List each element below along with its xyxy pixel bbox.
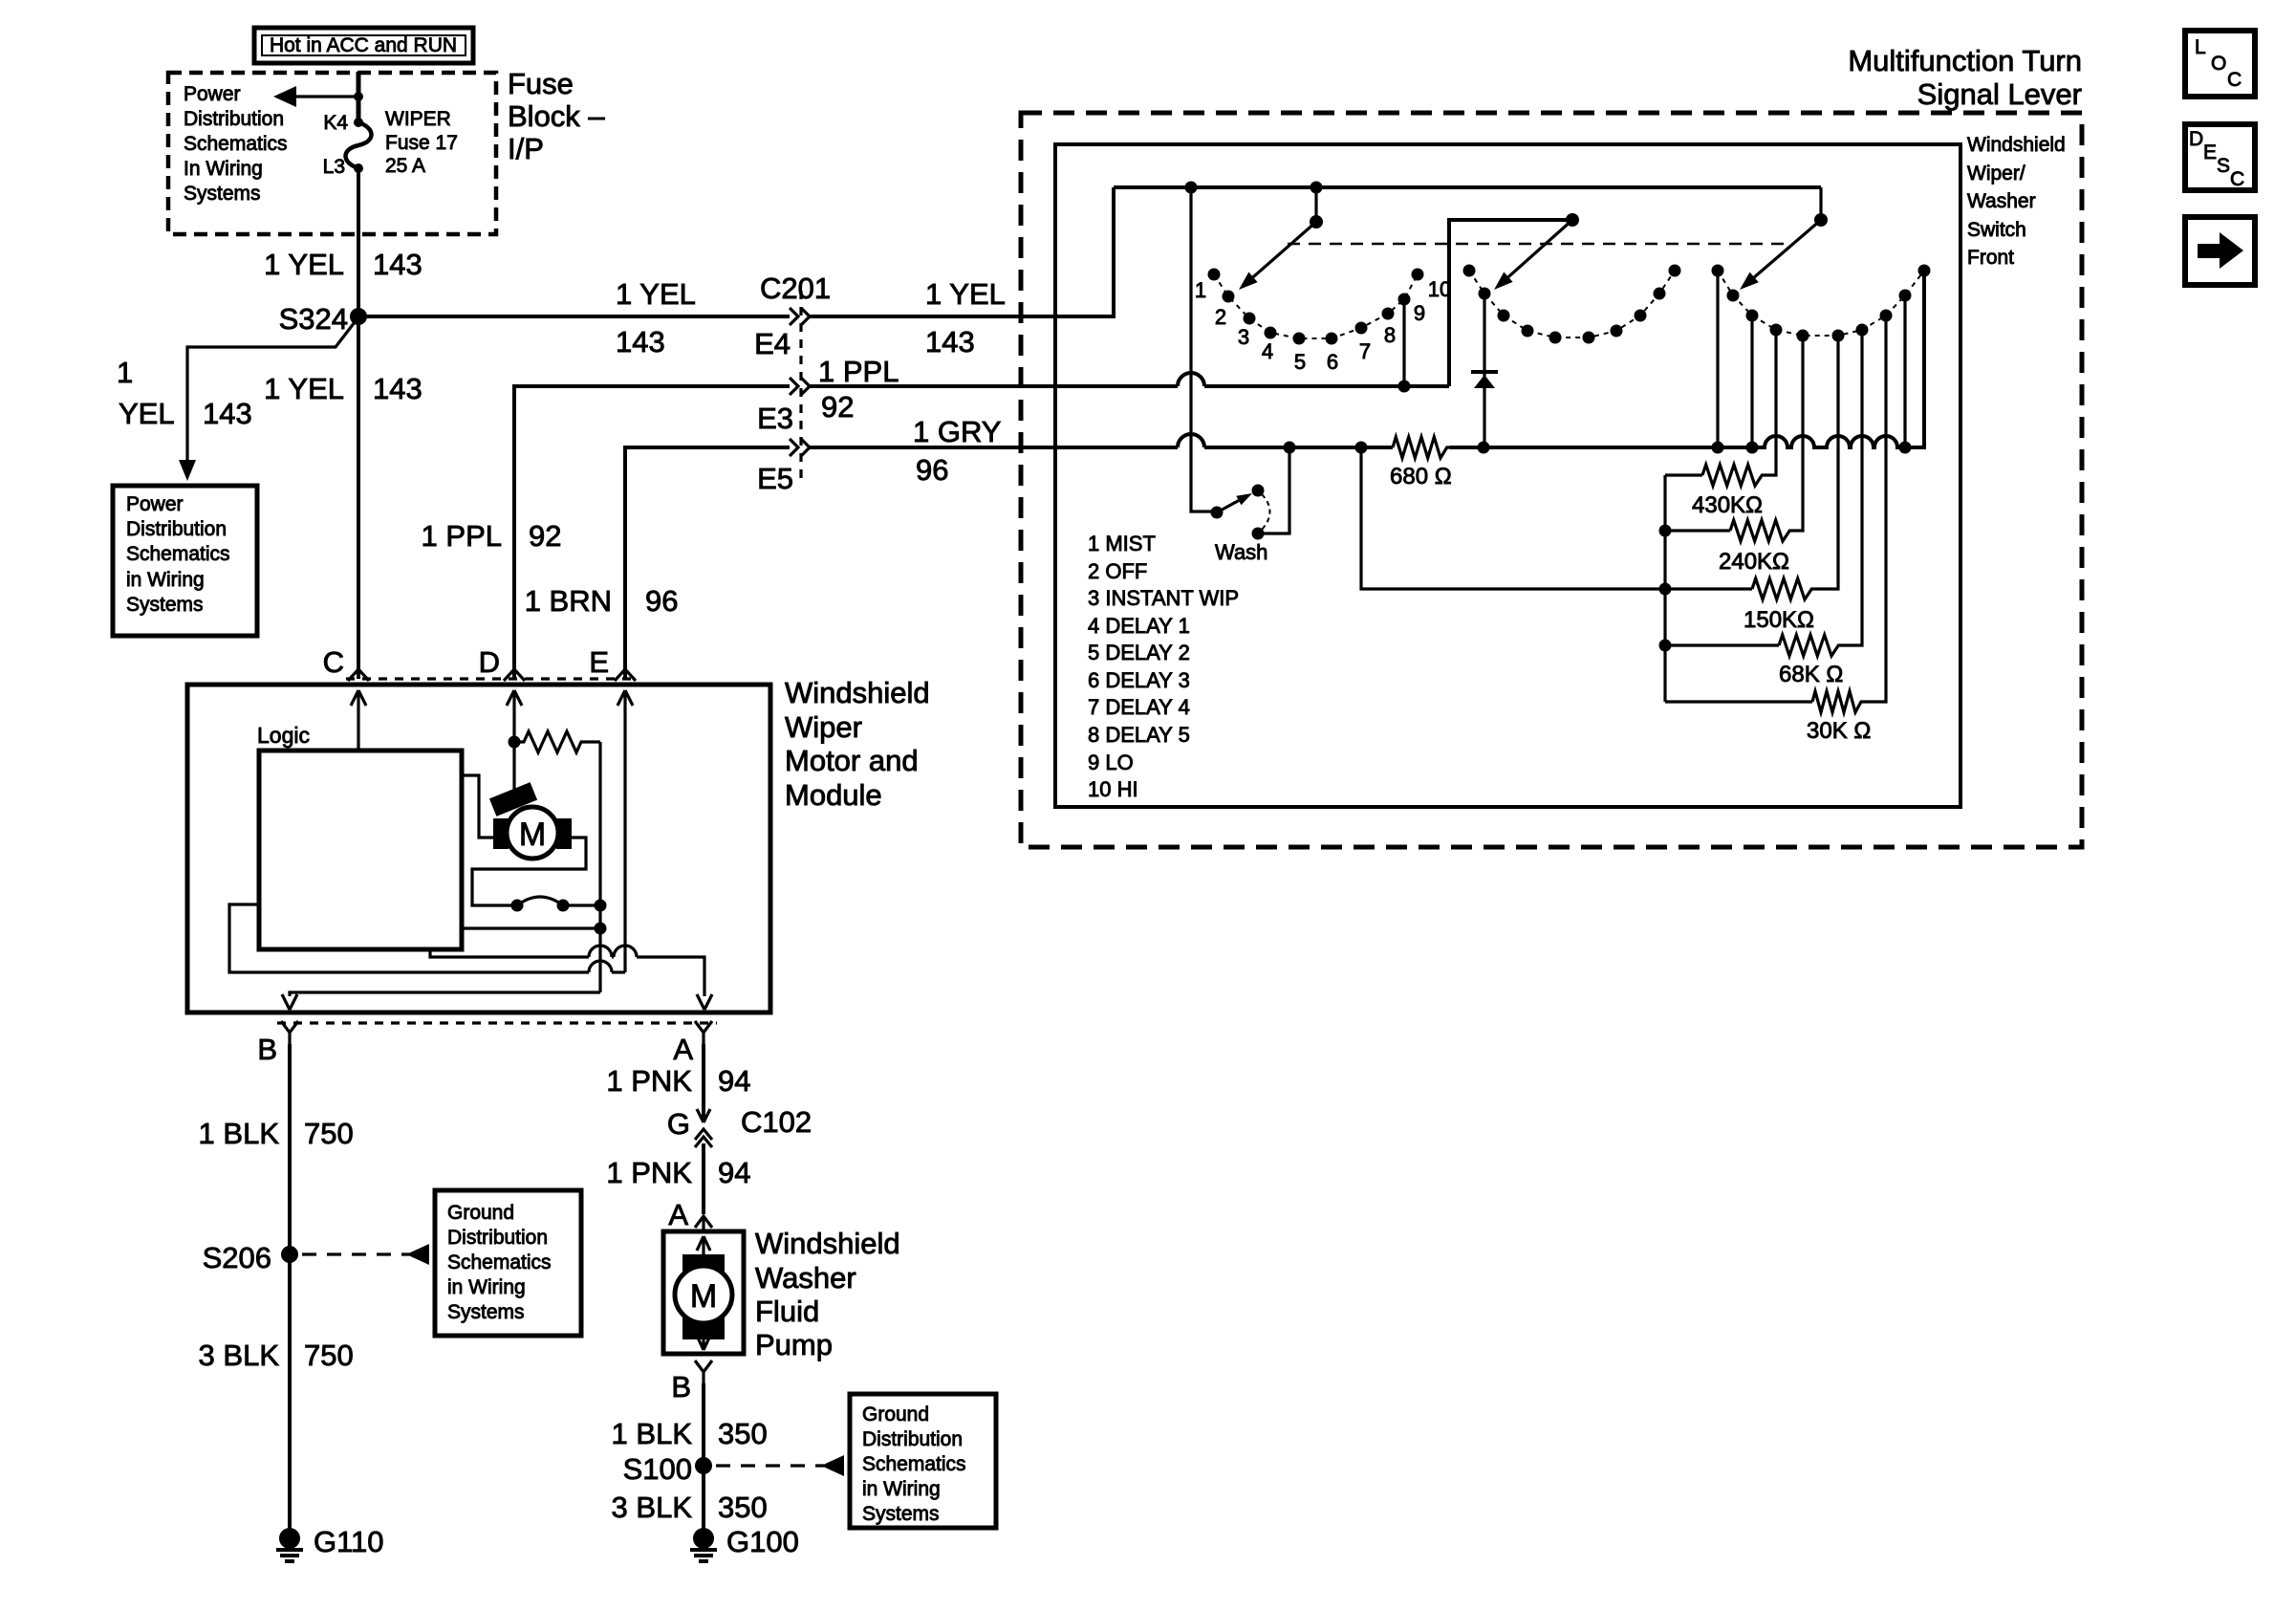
svg-text:Module: Module [785,778,882,812]
svg-text:C102: C102 [741,1105,812,1139]
wiper 1 arm arrow [1239,222,1316,290]
wire: E line to logic left side with crossover [229,904,625,972]
module bottom connector dashed line [277,1021,717,1024]
wire: logic to motor left brush [462,775,493,838]
svg-text:WIPER: WIPER [385,108,451,130]
svg-text:350: 350 [718,1417,768,1450]
svg-text:C: C [2227,69,2242,91]
svg-text:92: 92 [821,390,854,424]
svg-text:1 PPL: 1 PPL [818,355,899,388]
contact position numbers 1-10 (arc 1) [1195,277,1451,374]
svg-text:1 BLK: 1 BLK [612,1417,693,1450]
wire: 1 PNK 94 from C102 to pump [606,1143,750,1214]
svg-text:25 A: 25 A [385,155,425,177]
svg-text:Ground: Ground [447,1202,514,1224]
svg-text:94: 94 [718,1156,750,1189]
wire: top supply bus [1114,185,1821,189]
wire: 3 BLK 350 from S100 to G100 [612,1466,768,1530]
wire: 1 YEL 143 from C201 to switch [810,187,1114,359]
svg-text:O: O [2211,53,2226,75]
rotary contact arc 1 (wiper) [1208,269,1424,345]
svg-text:3 INSTANT WIP: 3 INSTANT WIP [1088,586,1239,610]
label: Hot in ACC and RUN [254,28,473,63]
svg-text:Distribution: Distribution [862,1428,963,1450]
connector C201 dashed line [799,291,802,486]
svg-text:Schematics: Schematics [447,1252,552,1274]
node: contact 3 tap on GRY [1746,321,1759,454]
node: contact 9 tap on GRY [1899,301,1912,454]
wiper 3 pivot from bus [1814,187,1828,227]
svg-text:143: 143 [373,248,422,281]
reference box: Ground Distribution Schematics in Wiring Systems (S206) [435,1190,581,1336]
svg-text:30K Ω: 30K Ω [1807,718,1871,744]
svg-text:5 DELAY 2: 5 DELAY 2 [1088,641,1190,664]
svg-text:Fluid: Fluid [755,1295,819,1328]
svg-text:94: 94 [718,1064,750,1098]
wire: 1 GRY 96 from E5 into switch [810,415,1289,487]
terminal E5 chevrons [757,439,810,495]
svg-text:10 HI: 10 HI [1088,777,1138,801]
svg-text:Distribution: Distribution [447,1227,548,1249]
svg-text:L: L [2195,36,2206,58]
svg-text:143: 143 [616,325,665,359]
svg-text:Fuse: Fuse [508,67,574,100]
svg-text:Schematics: Schematics [126,543,230,565]
svg-text:1 GRY: 1 GRY [913,415,1001,448]
svg-text:E: E [2203,142,2217,163]
terminal D chevron [479,645,525,681]
svg-text:Distribution: Distribution [126,518,227,540]
wiper 3 arm arrow [1740,220,1821,290]
svg-text:680 Ω: 680 Ω [1390,464,1452,490]
svg-text:in Wiring: in Wiring [447,1276,526,1298]
pump box: Windshield Washer Fluid Pump [663,1231,744,1354]
svg-text:8 DELAY 5: 8 DELAY 5 [1088,723,1190,747]
svg-text:Hot in ACC and RUN: Hot in ACC and RUN [270,34,457,56]
wire: 1 BLK 350 from pump B to S100 [612,1383,768,1466]
svg-text:Front: Front [1967,247,2014,269]
svg-text:Signal Lever: Signal Lever [1917,77,2082,111]
resistor 150K ohm [1744,341,1838,633]
svg-text:Schematics: Schematics [184,133,288,155]
node: contact 1 tap on GRY [1712,276,1724,454]
legend: switch positions [1088,532,1239,801]
wash switch [1191,187,1289,564]
svg-text:1 PNK: 1 PNK [606,1064,692,1098]
rotary contact arc 3 (delay resistors) [1712,265,1931,342]
wire: logic to park rail [462,926,600,929]
svg-text:143: 143 [373,372,422,405]
svg-text:1 BLK: 1 BLK [199,1117,280,1150]
svg-text:1 YEL: 1 YEL [264,248,344,281]
wire: 1 PPL 92 from module D up to E3 [422,386,790,679]
node: park rail junction 2 [595,923,607,935]
svg-text:Washer: Washer [755,1261,856,1295]
reference link: S206 to ground distribution box [302,1244,429,1265]
svg-text:2 OFF: 2 OFF [1088,559,1147,583]
svg-text:Block –: Block – [508,99,605,133]
wire: 1 PNK 94 from A to C102 [606,1044,750,1117]
terminal E3 chevrons [757,378,810,435]
svg-text:1: 1 [1195,278,1206,302]
svg-text:YEL: YEL [119,397,175,430]
svg-text:96: 96 [916,453,948,487]
module box: Windshield Wiper Motor and Module [187,685,770,1012]
svg-text:M: M [519,816,546,853]
node: bus junction wiper1 [1310,182,1323,194]
node: D-resistor junction [509,736,521,749]
wire: branch from S324 down-left to arrow [179,322,355,481]
wire: 1 PPL 92 from E3 into switch [810,355,1449,424]
svg-text:B: B [257,1033,277,1066]
reference box: Power Distribution Schematics in Wiring Systems [113,486,257,636]
svg-text:E4: E4 [754,327,791,360]
wire: ladder feed from GRY to bus [1361,447,1752,589]
svg-text:Power: Power [184,83,241,105]
svg-text:Schematics: Schematics [862,1453,966,1475]
svg-text:240KΩ: 240KΩ [1719,549,1789,575]
svg-text:Windshield: Windshield [1967,134,2066,156]
svg-text:92: 92 [529,519,561,553]
svg-text:6: 6 [1327,350,1338,374]
reference tab box LOC [2185,31,2255,97]
svg-text:S206: S206 [203,1241,271,1274]
svg-text:in Wiring: in Wiring [862,1478,941,1500]
svg-text:9: 9 [1414,301,1425,325]
svg-text:Systems: Systems [447,1301,525,1323]
label: Windshield Wiper/ Washer Switch Front [1967,134,2066,269]
terminal B chevron [257,1021,298,1066]
node: bus junction wash [1185,182,1198,194]
svg-text:Wiper: Wiper [785,710,862,744]
switch outer dashed box: Multifunction Turn Signal Lever [1021,113,2082,847]
wire: washer contact 2 to diode [1483,299,1485,447]
svg-text:Systems: Systems [184,183,261,205]
svg-text:350: 350 [718,1491,768,1524]
svg-text:G110: G110 [314,1525,384,1558]
wire: 1 BLK 750 from B to S206 [199,1044,354,1254]
svg-text:S: S [2217,155,2230,177]
label: Multifunction Turn Signal Lever [1848,44,2082,111]
svg-text:Washer: Washer [1967,190,2036,212]
svg-text:in Wiring: in Wiring [126,569,205,591]
wire: C input arrow to Logic [351,690,366,751]
wire: feed from Hot into fuse block [357,72,361,122]
svg-text:1 PNK: 1 PNK [606,1156,692,1189]
svg-text:Motor and: Motor and [785,744,919,777]
wire: arrow to Power Distribution Schematics [273,86,358,107]
wire: GRY bus across arc 3 taps with crossovers [1450,276,1924,447]
svg-text:1 PPL: 1 PPL [422,519,502,553]
svg-text:C: C [2230,168,2244,190]
svg-text:3 BLK: 3 BLK [199,1339,280,1372]
wire: 1 BRN 96 from module E up to E5 [525,447,790,679]
ground G110 [276,1525,384,1561]
svg-text:C: C [323,645,344,679]
svg-text:143: 143 [203,397,252,430]
wire: logic bottom to A output with crossovers [430,946,712,1010]
svg-text:E5: E5 [757,462,793,495]
reference box: Ground Distribution Schematics in Wiring Systems (S100) [850,1394,996,1528]
svg-text:4: 4 [1262,339,1273,363]
resistor 240K ohm [1665,341,1803,575]
svg-text:Windshield: Windshield [755,1227,900,1260]
reference tab box DESC [2185,124,2255,190]
node: diode junction on GRY [1478,442,1490,454]
svg-text:K4: K4 [323,112,348,134]
terminal A chevron [673,1021,712,1066]
terminal C chevron [323,645,369,681]
svg-text:A: A [668,1198,688,1231]
pin L3 [323,156,363,178]
svg-text:9 LO: 9 LO [1088,751,1134,774]
svg-text:Systems: Systems [862,1503,940,1525]
terminal E chevron [589,645,636,681]
svg-text:Distribution: Distribution [184,108,284,130]
svg-text:430KΩ: 430KΩ [1692,492,1763,518]
label: Fuse Block - I/P [508,67,605,165]
resistor 68K ohm [1665,336,1862,687]
label: Windshield Washer Fluid Pump [755,1227,900,1361]
wiper 2 arm arrow [1494,220,1572,290]
svg-text:B: B [671,1370,691,1404]
switch inner box [1055,144,1960,807]
label: Windshield Wiper Motor and Module [785,676,930,812]
reference tab box next-arrow [2185,217,2255,285]
reference link: S100 to ground distribution box [716,1455,844,1476]
node S206 [203,1241,298,1274]
svg-text:E3: E3 [757,402,793,435]
logic block box [259,751,462,949]
wire: 1 YEL 143 fuse to S324 [264,168,422,316]
wire: 1 YEL 143 from S324 down to module C [264,316,422,679]
svg-text:Systems: Systems [126,594,204,616]
resistor 30K ohm [1665,321,1886,744]
svg-text:5: 5 [1294,350,1306,374]
connector C102 pin G [667,1105,812,1147]
svg-text:G: G [667,1107,690,1141]
svg-text:Pump: Pump [755,1328,833,1361]
wire: D input arrow to motor [507,690,522,796]
svg-text:1 YEL: 1 YEL [616,277,696,311]
svg-text:E: E [589,645,609,679]
pin K4 [323,112,363,134]
node S100 [623,1452,712,1486]
svg-text:150KΩ: 150KΩ [1744,607,1814,633]
svg-text:7: 7 [1359,339,1371,363]
svg-text:Logic: Logic [257,723,310,748]
svg-text:143: 143 [925,325,975,359]
wire: motor right brush to park contact [472,838,586,905]
fuse block dashed box [168,73,496,234]
svg-text:L3: L3 [323,156,345,178]
label Logic [257,723,310,748]
wire: contact 9 to PPL line [1398,305,1411,393]
connector C201 label [760,272,831,305]
svg-text:D: D [479,645,500,679]
svg-text:1: 1 [117,356,133,389]
svg-text:7 DELAY 4: 7 DELAY 4 [1088,695,1190,719]
svg-text:A: A [673,1033,693,1066]
terminal B of pump [671,1361,712,1404]
wire: 3 BLK 750 from S206 to G110 [199,1254,354,1530]
svg-text:S100: S100 [623,1452,692,1486]
svg-text:Power: Power [126,493,184,515]
svg-text:96: 96 [645,584,678,618]
svg-text:M: M [690,1278,717,1315]
svg-text:1 YEL: 1 YEL [264,372,344,405]
svg-text:1 MIST: 1 MIST [1088,532,1156,555]
node: wash to GRY junction [1284,442,1296,454]
wiper 2 pivot and feed from PPL [1449,213,1579,386]
svg-text:In Wiring: In Wiring [184,158,263,180]
svg-text:3: 3 [1238,325,1249,349]
mechanical link dashed line [1288,243,1786,246]
motor M2 washer pump [675,1236,732,1350]
svg-text:Wiper/: Wiper/ [1967,163,2025,185]
connector row C D E dashed line [346,677,639,680]
node: park rail junction 1 [595,900,607,912]
park switch contacts [511,897,601,912]
svg-text:8: 8 [1384,323,1396,347]
svg-text:Ground: Ground [862,1404,929,1426]
svg-text:Multifunction Turn: Multifunction Turn [1848,44,2082,77]
svg-text:4 DELAY 1: 4 DELAY 1 [1088,614,1190,638]
resistor 430K ohm [1665,336,1776,518]
svg-text:Windshield: Windshield [785,676,930,709]
svg-text:6 DELAY 3: 6 DELAY 3 [1088,668,1190,692]
wire: E input arrow [617,690,633,972]
label: 1 YEL 143 (left branch) [117,356,252,430]
svg-text:G100: G100 [726,1525,799,1558]
motor M1 wiper motor [489,782,572,859]
label: 1 YEL 143 (left of C201) [616,277,696,359]
svg-text:750: 750 [304,1117,354,1150]
label: WIPER Fuse 17 25 A [385,108,458,177]
svg-text:Wash: Wash [1215,540,1267,564]
ground G100 [690,1525,799,1561]
wiper 1 pivot [1310,187,1323,229]
svg-text:D: D [2189,128,2203,150]
svg-text:1 YEL: 1 YEL [925,277,1006,311]
terminal A of pump [668,1198,712,1231]
node: ladder feed junction on GRY [1355,442,1368,454]
wire: park rail to B output arrow [282,992,600,1010]
svg-text:3 BLK: 3 BLK [612,1491,693,1524]
node S324 [279,302,367,336]
svg-text:Switch: Switch [1967,219,2026,241]
node: junction above fuse [354,92,363,101]
fuse F17 element [346,122,372,168]
svg-text:1 BRN: 1 BRN [525,584,612,618]
resistor: motor shunt [514,731,600,752]
svg-text:Fuse 17: Fuse 17 [385,132,458,154]
wire: resistor to park switch rail [598,742,601,992]
ladder bus [1659,475,1672,702]
svg-text:S324: S324 [279,302,348,336]
rotary contact arc 2 (washer) [1463,265,1681,344]
svg-text:750: 750 [304,1339,354,1372]
reference text: Power Distribution Schematics In Wiring Systems [184,83,288,205]
terminal E4 chevrons [754,308,810,360]
wire: GRY to 680 ohm [1289,446,1393,449]
svg-text:68K Ω: 68K Ω [1779,662,1843,687]
wire: 1 YEL 143 from S324 to C201 E4 [358,315,790,318]
svg-text:2: 2 [1215,305,1226,329]
diode D1 [1471,372,1498,388]
svg-text:I/P: I/P [508,132,544,165]
svg-text:C201: C201 [760,272,831,305]
resistor 680 ohm [1390,437,1452,490]
